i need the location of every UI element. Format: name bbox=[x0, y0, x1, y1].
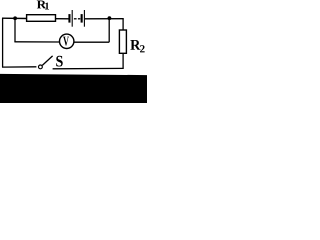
battery cell 1 short thick plate bbox=[68, 14, 70, 23]
battery dashed link bbox=[74, 18, 80, 20]
resistor R1 bbox=[27, 15, 56, 22]
wire right vertical lower bbox=[122, 53, 124, 69]
wire voltmeter branch left horizontal bbox=[14, 41, 59, 43]
battery cell 2 short thick plate bbox=[81, 14, 83, 23]
wire top-right segment bbox=[85, 18, 124, 20]
wire voltmeter branch right horizontal bbox=[74, 41, 109, 43]
wire left vertical bbox=[2, 18, 4, 67]
wire voltmeter branch left vertical bbox=[14, 18, 16, 42]
switch S pivot circle bbox=[39, 65, 43, 69]
wire bottom right segment bbox=[53, 67, 124, 69]
label R1 bbox=[37, 1, 49, 10]
battery cell 1 long thin plate bbox=[71, 10, 73, 27]
node junction dot left bbox=[13, 16, 17, 20]
label S bbox=[56, 56, 62, 67]
label R2 bbox=[130, 40, 144, 52]
resistor R2 bbox=[119, 30, 126, 53]
wire between R1 and battery bbox=[56, 18, 69, 20]
node junction dot right bbox=[108, 16, 112, 20]
switch S lever bbox=[42, 56, 52, 66]
wire bottom left stub bbox=[2, 66, 36, 68]
wire right vertical upper bbox=[122, 18, 124, 30]
wire voltmeter branch right vertical bbox=[108, 18, 110, 42]
battery cell 2 long thin plate bbox=[83, 10, 85, 27]
voltmeter V bbox=[59, 34, 73, 48]
wire top-left segment bbox=[2, 17, 27, 19]
